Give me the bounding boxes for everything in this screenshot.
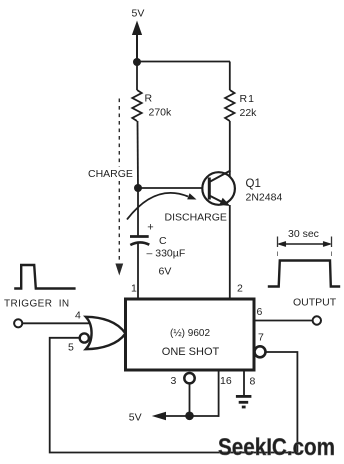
resistor R 270k — [132, 90, 141, 121]
svg-text:+: + — [147, 222, 153, 234]
wire top rail — [137, 61, 230, 63]
wire R1 to Q1 collector — [229, 121, 231, 176]
svg-text:ONE SHOT: ONE SHOT — [162, 346, 220, 358]
svg-text:8: 8 — [250, 376, 256, 388]
svg-text:C: C — [159, 235, 167, 247]
transistor Q1 2N2484 — [202, 171, 235, 206]
OR gate U2 — [86, 317, 126, 349]
ground — [236, 396, 252, 407]
wire pin 16 — [218, 370, 220, 417]
svg-text:Q1: Q1 — [246, 178, 261, 190]
pin 3 terminal circle — [184, 373, 194, 383]
pin 7 terminal circle — [255, 346, 266, 357]
svg-text:TRIGGER IN: TRIGGER IN — [4, 299, 70, 310]
svg-text:1: 1 — [131, 283, 137, 295]
svg-text:2N2484: 2N2484 — [246, 192, 283, 204]
svg-text:(½) 9602: (½) 9602 — [170, 328, 210, 339]
node A junction dot — [133, 58, 141, 66]
output pulse waveform — [268, 261, 340, 287]
trigger input pulse waveform — [14, 265, 75, 289]
wire 5V bottom rail — [160, 415, 219, 417]
svg-text:SeekIC.com: SeekIC.com — [218, 434, 335, 461]
wire pin 6 output — [254, 320, 313, 322]
node C junction dot — [185, 412, 194, 421]
wire R to node B — [137, 121, 140, 188]
wire pin 5 feedback — [50, 338, 298, 453]
svg-text:5V: 5V — [129, 412, 142, 424]
svg-text:3: 3 — [171, 375, 177, 387]
capacitor C 330uF — [130, 235, 149, 238]
dimension arrow 30 sec — [278, 241, 332, 246]
svg-text:2: 2 — [237, 283, 243, 295]
dimension ticks — [277, 237, 279, 248]
svg-text:DISCHARGE: DISCHARGE — [165, 212, 227, 224]
svg-text:OUTPUT: OUTPUT — [293, 297, 337, 309]
charge dashed arrow — [118, 99, 120, 264]
discharge curved arrow — [127, 193, 188, 220]
resistor R1 22k — [225, 90, 234, 121]
wire pin 8 to ground — [243, 370, 245, 396]
wire 5V to R — [136, 62, 138, 90]
svg-text:16: 16 — [220, 375, 232, 387]
bubble pin 5 — [80, 333, 89, 342]
svg-text:22k: 22k — [240, 107, 258, 119]
svg-text:6V: 6V — [159, 266, 172, 278]
wire node B to capacitor — [137, 188, 139, 236]
terminal trigger input — [14, 319, 22, 327]
svg-text:– 330µF: – 330µF — [147, 248, 186, 260]
wire pin 3 to 5V — [189, 383, 191, 416]
svg-text:R1: R1 — [240, 93, 255, 105]
svg-text:4: 4 — [75, 310, 81, 322]
power arrow 5V bottom — [152, 412, 166, 421]
svg-text:5: 5 — [68, 342, 74, 354]
terminal output — [313, 316, 321, 324]
wire trigger to pin 4 — [22, 322, 90, 324]
label CHARGE — [86, 167, 135, 180]
wire base of Q1 — [138, 187, 203, 189]
IC U1 9602 one-shot — [126, 299, 255, 370]
svg-text:R: R — [145, 93, 153, 105]
wire capacitor to pin 1 — [137, 243, 139, 300]
wire Q1 emitter to pin 2 — [229, 205, 231, 300]
svg-text:30 sec: 30 sec — [288, 228, 319, 240]
svg-text:6: 6 — [257, 306, 263, 318]
svg-text:CHARGE: CHARGE — [88, 168, 133, 180]
svg-text:5V: 5V — [132, 8, 145, 20]
power arrow 5V — [133, 22, 142, 62]
node B junction dot — [134, 184, 142, 192]
svg-text:7: 7 — [258, 332, 264, 344]
wire 5V rail to R1 — [229, 62, 231, 91]
svg-text:270k: 270k — [149, 107, 173, 119]
